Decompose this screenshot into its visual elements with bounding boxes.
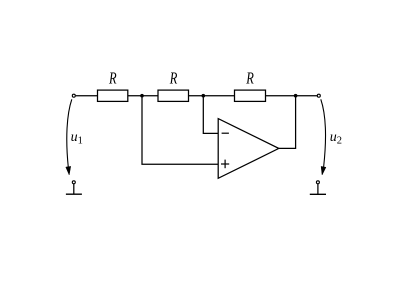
ground (right)	[310, 181, 326, 195]
voltage arrow u1 (curved, left port)	[66, 99, 72, 175]
svg-text:u2: u2	[330, 130, 342, 146]
node A (junction R1/R2/non-inverting input)	[140, 94, 144, 98]
label R (R2 value)	[169, 69, 178, 88]
svg-text:R: R	[108, 69, 117, 88]
wire: R1 to R2	[128, 95, 158, 97]
node C (output junction)	[294, 94, 298, 98]
wire: R2 to R3	[189, 95, 235, 97]
op-amp U1 (triangle)	[218, 119, 279, 179]
resistor R2	[158, 90, 189, 101]
resistor R3	[235, 90, 266, 101]
label u1	[71, 130, 83, 146]
node B (junction R2/R3/inverting input)	[202, 94, 206, 98]
input terminal (left, open circle)	[72, 94, 75, 97]
op-amp inverting input marker (minus)	[222, 132, 229, 134]
label R (R3 value)	[245, 69, 254, 88]
wire: R3 to output terminal	[266, 95, 318, 97]
wire: node B down to inverting input	[203, 96, 218, 134]
voltage arrow u2 (curved, right port)	[321, 99, 326, 175]
svg-text:R: R	[245, 69, 254, 88]
wire: input terminal to R1	[76, 95, 98, 97]
label R (R1 value)	[108, 69, 117, 88]
ground (left)	[66, 181, 82, 194]
wire: node A down and right to non-inverting input	[142, 96, 218, 165]
label u2	[330, 130, 342, 146]
op-amp non-inverting input marker (plus)	[221, 160, 229, 169]
wire: op-amp output up to node C	[279, 96, 296, 149]
output terminal (right, open circle)	[317, 94, 320, 97]
svg-text:u1: u1	[71, 130, 83, 146]
resistor R1	[98, 90, 128, 101]
svg-text:R: R	[169, 69, 178, 88]
